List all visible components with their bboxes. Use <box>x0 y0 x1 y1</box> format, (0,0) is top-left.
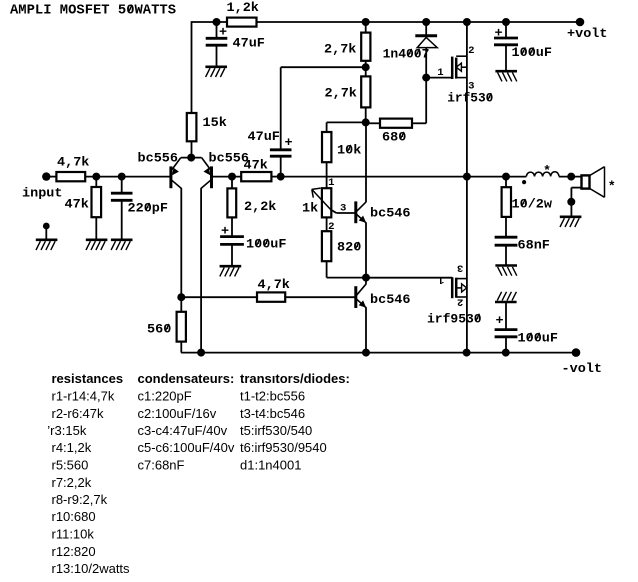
capacitor C7 68nF <box>505 217 507 236</box>
svg-text:3: 3 <box>457 262 463 274</box>
svg-text:4,7k: 4,7k <box>57 155 90 170</box>
svg-text:r12:820: r12:820 <box>52 544 96 559</box>
wire P1 to R12 <box>326 217 328 231</box>
svg-text:+: + <box>285 135 293 150</box>
svg-text:t5:irf530/540: t5:irf530/540 <box>240 423 312 438</box>
resistor R3 15k <box>187 113 197 141</box>
node rail-C3 <box>213 18 221 26</box>
svg-text:47uF: 47uF <box>248 129 281 144</box>
svg-text:r2-r6:47k: r2-r6:47k <box>52 406 105 421</box>
svg-text:c5-c6:100uF/40v: c5-c6:100uF/40v <box>138 440 235 455</box>
svg-text:bc546: bc546 <box>370 292 411 307</box>
node speaker <box>567 173 575 181</box>
svg-text:560: 560 <box>147 322 172 337</box>
resistor R8 2,7k <box>365 22 367 33</box>
svg-text:10k: 10k <box>337 143 362 158</box>
svg-text:220pF: 220pF <box>128 201 169 216</box>
svg-text:47k: 47k <box>65 197 90 212</box>
svg-text:2: 2 <box>468 45 474 57</box>
node rail-Q4 <box>362 349 370 357</box>
wire Q2 base to node <box>212 176 242 178</box>
input terminal <box>42 172 50 180</box>
svg-text:1n4007: 1n4007 <box>383 46 430 61</box>
ground R2 <box>86 239 108 242</box>
svg-text:2,2k: 2,2k <box>244 199 277 214</box>
node Q5 gate <box>422 74 430 82</box>
svg-text:820: 820 <box>337 240 362 255</box>
capacitor C5 100uF <box>505 22 507 37</box>
svg-text:10/2w: 10/2w <box>512 197 553 212</box>
svg-text:r1-r14:4,7k: r1-r14:4,7k <box>52 389 115 404</box>
svg-text:c7:68nF: c7:68nF <box>138 458 185 473</box>
wire rail to R3 <box>191 21 193 113</box>
resistor R11 10k <box>322 132 331 162</box>
svg-text:transıtors/diodes:: transıtors/diodes: <box>240 371 350 386</box>
ground C3 <box>205 66 227 69</box>
wire gates node to Q6 gate <box>366 277 452 279</box>
svg-text:r10:680: r10:680 <box>52 509 96 524</box>
wire R11 to P1 <box>326 162 328 188</box>
ground C2 <box>220 265 242 268</box>
wire R10 to gate node <box>412 122 426 124</box>
svg-text:r11:10k: r11:10k <box>52 527 95 542</box>
resistor R6 47k <box>241 172 271 181</box>
wire Q1 collector to R14 <box>181 296 257 298</box>
capacitor C3 47uF <box>216 22 218 38</box>
svg-text:r4:1,2k: r4:1,2k <box>52 440 92 455</box>
wire C4 to R8/R9 node <box>281 66 366 68</box>
wire R9 node to Q3 collector <box>365 122 367 202</box>
svg-text:1: 1 <box>328 177 334 189</box>
wire MOSFET drain-source column <box>466 22 468 353</box>
node rail-C5 <box>502 18 510 26</box>
wire R1 to Q1 base <box>85 176 170 178</box>
node rail-D1 <box>422 18 430 26</box>
svg-text:+: + <box>496 313 504 328</box>
node output <box>463 173 471 181</box>
resistor R14 4,7k <box>257 292 285 301</box>
svg-text:irf9530: irf9530 <box>427 311 482 326</box>
node Q2 base <box>228 173 236 181</box>
resistor R13 10/2w <box>505 177 507 188</box>
svg-text:*: * <box>608 179 616 194</box>
wire R3 to emitters node <box>191 141 193 158</box>
-volt terminal <box>572 348 581 357</box>
svg-text:c3-c4:47uF/40v: c3-c4:47uF/40v <box>138 423 228 438</box>
resistor R7 2,2k <box>231 177 233 189</box>
svg-text:1: 1 <box>438 274 444 286</box>
svg-text:2,7k: 2,7k <box>325 86 358 101</box>
svg-text:680: 680 <box>382 130 407 145</box>
wire node to R11 <box>327 121 366 123</box>
node R2 <box>92 173 100 181</box>
node rail-R8 <box>362 18 370 26</box>
resistor R9 2,7k <box>361 76 370 107</box>
capacitor C6 100uF <box>505 302 507 329</box>
svg-text:-volt: -volt <box>562 361 603 376</box>
svg-text:68nF: 68nF <box>518 238 551 253</box>
svg-text:100uF: 100uF <box>512 45 553 60</box>
ground C1 <box>111 239 133 242</box>
node gates <box>362 274 370 282</box>
wire R6 to output node <box>271 176 281 178</box>
svg-text:2,7k: 2,7k <box>324 42 357 57</box>
wire P1 wiper to Q3 base <box>331 210 337 214</box>
node R8-R9 <box>362 63 370 71</box>
node feedback <box>177 293 185 301</box>
svg-text:15k: 15k <box>203 115 228 130</box>
svg-text:resistances: resistances <box>52 371 124 386</box>
wire speaker to ground <box>571 187 581 189</box>
diode D1 1n4007 <box>425 22 427 48</box>
svg-text:bc556: bc556 <box>138 151 179 166</box>
+volt terminal <box>576 18 585 27</box>
svg-text:*: * <box>543 164 551 179</box>
svg-text:input: input <box>22 186 63 201</box>
node R9-R10-R11 <box>362 118 370 126</box>
capacitor C2 100uF <box>231 217 233 235</box>
svg-text:bc546: bc546 <box>370 206 411 221</box>
svg-text:1,2k: 1,2k <box>227 0 260 15</box>
resistor R10 680 <box>366 122 380 124</box>
potentiometer P1 1k <box>322 188 331 217</box>
wire emitters <box>181 157 202 159</box>
svg-text:1k: 1k <box>302 201 318 216</box>
wire Q3 emitter to gates node <box>365 223 367 278</box>
wire Q4 emitter to rail <box>365 308 367 353</box>
svg-text:irf530: irf530 <box>447 91 493 106</box>
svg-text:t6:irf9530/9540: t6:irf9530/9540 <box>240 440 327 455</box>
svg-text:r8-r9:2,7k: r8-r9:2,7k <box>52 492 108 507</box>
speaker LS1 <box>582 175 590 188</box>
wire gates node to Q4 collector <box>365 278 367 284</box>
wire output line mid <box>281 176 467 178</box>
resistor R2 47k <box>95 177 97 188</box>
svg-text:t1-t2:bc556: t1-t2:bc556 <box>240 389 305 404</box>
resistor R1 4,7k <box>56 172 85 181</box>
wire R12 to gates node <box>326 261 328 277</box>
svg-text:100uF: 100uF <box>246 237 287 252</box>
wire Q1 collector <box>180 188 182 297</box>
-volt rail wire <box>181 352 576 354</box>
svg-text:r13:10/2watts: r13:10/2watts <box>52 561 131 576</box>
resistor R5 560 <box>180 297 182 312</box>
ground speaker <box>560 216 582 219</box>
capacitor C1 220pF <box>121 177 123 193</box>
node C4-output <box>277 173 285 181</box>
ground C7 <box>495 264 517 267</box>
node rail-Q5 <box>463 18 471 26</box>
svg-text:AMPLI MOSFET 50WATTS: AMPLI MOSFET 50WATTS <box>10 4 176 19</box>
svg-text:+volt: +volt <box>567 26 608 41</box>
input ground <box>43 223 50 230</box>
node emitters <box>187 154 195 162</box>
wire Q2 collector <box>200 188 202 352</box>
node rail-Q2 <box>197 349 205 357</box>
svg-text:c2:100uF/16v: c2:100uF/16v <box>138 406 217 421</box>
svg-text:d1:1n4001: d1:1n4001 <box>240 458 301 473</box>
inductor L1 <box>526 172 558 177</box>
node rail-C6 <box>502 349 510 357</box>
svg-text:r7:2,2k: r7:2,2k <box>52 475 92 490</box>
ground C5 <box>495 70 517 73</box>
svg-text:’r3:15k: ’r3:15k <box>47 423 87 438</box>
svg-text:47k: 47k <box>244 158 269 173</box>
resistor R12 820 <box>322 231 331 261</box>
node zobel <box>502 173 510 181</box>
wire R14 to Q4 base <box>285 296 356 298</box>
node C1 <box>118 173 126 181</box>
svg-text:4,7k: 4,7k <box>258 277 291 292</box>
+volt rail wire <box>192 21 581 23</box>
svg-text:100uF: 100uF <box>518 330 559 345</box>
resistor R4 1,2k <box>227 18 257 27</box>
svg-text:c1:220pF: c1:220pF <box>138 389 192 404</box>
wire input to R1 <box>46 176 57 178</box>
node rail-Q6 <box>463 349 471 357</box>
svg-text:r5:560: r5:560 <box>52 458 89 473</box>
svg-text:condensateurs:: condensateurs: <box>138 371 235 386</box>
wire output to coil <box>467 176 527 178</box>
svg-text:47uF: 47uF <box>233 36 266 51</box>
capacitor C4 47uF <box>280 157 282 176</box>
wire coil to speaker node <box>559 176 582 178</box>
ground C6 flipped <box>495 301 517 304</box>
svg-text:t3-t4:bc546: t3-t4:bc546 <box>240 406 305 421</box>
